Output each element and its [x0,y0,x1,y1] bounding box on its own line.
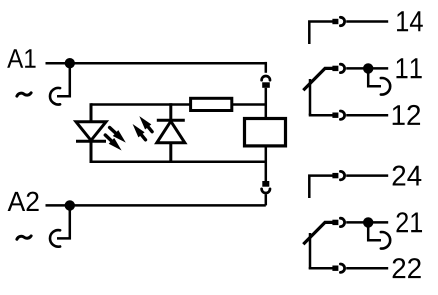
terminal label 14 [397,11,423,31]
connector socket 21 [340,218,344,226]
connector pin (coil bottom) [262,181,269,187]
terminal label 11 [396,58,421,78]
connector pin 21 [332,220,338,225]
connector socket 12 [340,111,344,119]
wire A1 horizontal [46,62,266,65]
LED emission arrow 2 (down-right) [105,135,121,151]
connector pin 12 [332,113,338,118]
LED D2 right (cathode up) [157,103,185,163]
connector socket arc (coil bottom) [262,189,270,193]
node 11 junction dot [363,63,373,73]
node A1 junction dot [65,58,75,68]
wire connector down to A2 corner [265,194,268,205]
terminal label 21 [396,212,422,232]
contact 22 wire [310,267,333,268]
terminal label 24 [393,166,422,186]
wire coil bottom [265,146,268,181]
terminal label 22 [393,258,421,278]
node 21 junction dot [363,217,373,227]
terminal label A1 [7,49,35,68]
contact 21 wire [346,221,388,224]
connector socket arc (coil top) [262,76,270,80]
wire resistor to coil lead [233,103,266,106]
wire A2 horizontal [46,204,266,207]
connector pin 22 [332,266,338,271]
wire connector to coil top [265,88,268,118]
wire 11 dot to clamp [368,68,381,86]
contact 14 wire [309,22,332,45]
AC symbol ~ at A1 [17,93,31,96]
clamp socket A2 [50,230,60,247]
clamp socket 11 [381,78,390,95]
clamp socket 21 [381,232,390,249]
resistor R1 [191,98,232,110]
contact 24 wire [309,176,332,198]
connector pin (coil top) [262,82,270,88]
LED emission arrow 1 (down-right) [110,128,126,143]
contact pivot post [309,79,312,115]
wire A1 dot to clamp [57,63,70,96]
wire LED loop bottom [91,161,266,164]
node A2 junction dot [65,200,75,210]
connector pin 11 [332,66,338,71]
wire LED loop top [91,103,190,106]
LED emission arrow 3 (up-left) [133,124,146,140]
LED D1 left (cathode down) [76,103,106,163]
connector pin 14 [332,19,338,24]
connector socket 24 [340,171,344,179]
contact pivot post 2 [309,233,312,269]
contact blade 21 [303,222,332,244]
wire A1 corner down to connector [265,62,268,73]
clamp socket A1 [50,88,60,105]
terminal label A2 [8,192,39,211]
contact 12 wire [310,114,333,116]
contact blade 11 [303,68,332,90]
wire A2 dot to clamp [57,205,70,238]
relay coil [245,119,286,146]
wire 21 dot to clamp [368,222,381,240]
connector socket 11 [340,64,344,72]
connector pin 24 [332,173,338,178]
terminal label 12 [393,105,420,125]
LED emission arrow 4 (up-left) [139,116,152,132]
connector socket 22 [340,264,344,272]
connector socket 14 [340,17,344,25]
AC symbol ~ at A2 [17,236,31,239]
contact 11 wire [346,67,388,70]
